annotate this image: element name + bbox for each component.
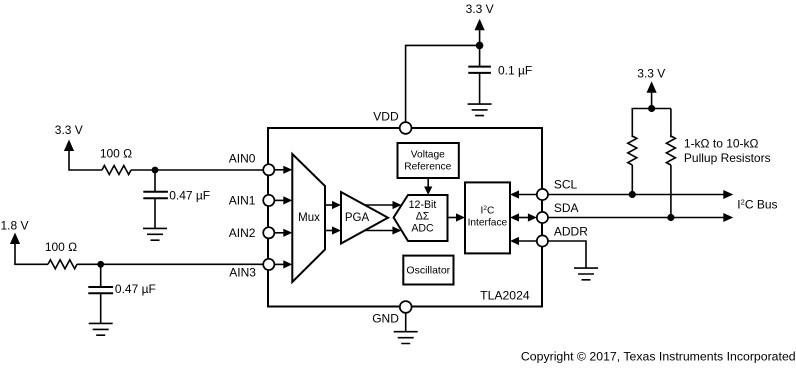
svg-text:0.47 µF: 0.47 µF [115,282,156,296]
svg-text:ADC: ADC [411,222,434,234]
svg-text:1.8 V: 1.8 V [0,218,28,232]
svg-text:I2C: I2C [480,205,494,217]
svg-text:AIN0: AIN0 [229,151,256,165]
svg-text:3.3 V: 3.3 V [55,123,83,137]
svg-text:Mux: Mux [298,212,320,224]
svg-text:SCL: SCL [554,178,578,192]
svg-text:Reference: Reference [404,162,451,173]
svg-text:AIN1: AIN1 [229,194,256,208]
svg-text:3.3 V: 3.3 V [466,2,494,16]
svg-text:PGA: PGA [345,212,370,224]
svg-text:Copyright © 2017, Texas Instru: Copyright © 2017, Texas Instruments Inco… [521,350,796,364]
svg-text:100 Ω: 100 Ω [100,146,132,160]
svg-text:AIN2: AIN2 [229,226,256,240]
svg-text:0.47 µF: 0.47 µF [169,188,210,202]
svg-text:3.3 V: 3.3 V [637,66,665,80]
svg-text:12-Bit: 12-Bit [409,199,437,211]
svg-text:1-kΩ to 10-kΩ: 1-kΩ to 10-kΩ [684,136,759,150]
svg-text:Pullup Resistors: Pullup Resistors [684,151,771,165]
svg-text:GND: GND [372,312,399,326]
svg-text:Oscillator: Oscillator [406,265,450,277]
svg-text:Interface: Interface [468,217,508,228]
svg-text:100 Ω: 100 Ω [45,240,77,254]
svg-text:AIN3: AIN3 [229,265,256,279]
svg-text:ADDR: ADDR [554,225,588,239]
svg-text:0.1 µF: 0.1 µF [498,63,532,77]
svg-text:SDA: SDA [554,201,579,215]
svg-text:Voltage: Voltage [411,149,445,160]
svg-text:ΔΣ: ΔΣ [416,210,430,222]
svg-text:TLA2024: TLA2024 [480,288,530,302]
svg-text:VDD: VDD [373,110,399,124]
